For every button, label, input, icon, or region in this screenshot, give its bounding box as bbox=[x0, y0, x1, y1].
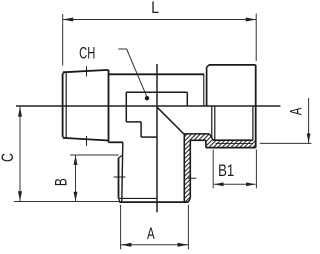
internal bore step vertical 1 bbox=[125, 92, 127, 122]
left male thread bottom corner chamfer bbox=[63, 137, 65, 138]
right block top edge bbox=[209, 64, 256, 66]
left male thread bottom crest bbox=[63, 138, 109, 141]
junction chamfer diagonal bbox=[157, 107, 184, 134]
socket bore line bbox=[213, 139, 253, 141]
svg-text:A: A bbox=[287, 107, 306, 115]
dimension A right line bbox=[308, 98, 310, 143]
internal bore step horizontal 1 bbox=[126, 121, 141, 123]
left thread end vertical bbox=[108, 70, 110, 142]
left thread tick bottom bbox=[86, 136, 88, 146]
svg-text:L: L bbox=[151, 0, 159, 18]
body top edge bbox=[109, 74, 205, 142]
body bottom edge left of branch bbox=[109, 141, 124, 143]
right block left edge bbox=[206, 67, 208, 106]
bottom branch left crest line bbox=[118, 158, 120, 198]
dimension A bottom extension lines bbox=[121, 205, 189, 250]
dimension A bottom line bbox=[121, 244, 189, 246]
socket thread root line bbox=[216, 143, 253, 145]
svg-text:C: C bbox=[0, 153, 18, 162]
bottom branch chamfer line bbox=[119, 197, 157, 199]
bottom branch thread tick bbox=[114, 176, 126, 178]
bottom branch corner chamfer bbox=[119, 198, 120, 202]
dimension C arrows bbox=[18, 107, 22, 202]
socket thread end vertical 1 bbox=[211, 106, 213, 138]
svg-text:B1: B1 bbox=[218, 162, 234, 181]
dimension A bottom arrows bbox=[121, 243, 188, 247]
right block left inner line bbox=[184, 65, 256, 148]
svg-text:A: A bbox=[147, 225, 155, 244]
left thread tick top bbox=[86, 66, 88, 76]
dimension B1 extension lines bbox=[213, 150, 256, 189]
dimension A right arrow bbox=[307, 134, 311, 144]
dimension B top extension line bbox=[70, 154, 119, 156]
dimension B arrows bbox=[74, 155, 78, 201]
right socket bottom face bbox=[206, 147, 256, 149]
section top edge at body wall bbox=[184, 133, 210, 135]
internal bore end wall bbox=[186, 92, 188, 105]
right socket boss left edge bbox=[205, 140, 207, 147]
bottom branch right wall bottom chamfer bbox=[188, 198, 190, 202]
svg-text:B: B bbox=[53, 178, 71, 186]
left male thread top corner chamfer bbox=[63, 72, 65, 73]
dimension B1 line bbox=[214, 183, 256, 185]
dimension B line bbox=[75, 155, 77, 201]
svg-text:CH: CH bbox=[79, 43, 95, 62]
leader CH dot bbox=[145, 96, 149, 100]
bottom branch thread runout diagonal bbox=[119, 155, 123, 158]
dimension L extension lines bbox=[63, 14, 257, 66]
right socket opening chamfer line bbox=[252, 106, 254, 140]
dimension L arrows bbox=[63, 18, 257, 22]
left male thread top crest bbox=[63, 70, 109, 72]
dimension C line bbox=[19, 106, 21, 201]
internal bore step horizontal 2 bbox=[141, 136, 157, 138]
body bottom wall outer edge bbox=[190, 139, 206, 141]
bottom branch right wall outer crest bbox=[189, 141, 191, 199]
dimension A right extension line bbox=[260, 142, 312, 144]
dimension L line bbox=[63, 19, 257, 21]
right block right edge bbox=[255, 65, 257, 148]
bottom extension line at part base bbox=[14, 201, 119, 203]
hatched section region bbox=[184, 134, 256, 202]
dimension B1 arrows bbox=[214, 182, 256, 186]
bottom branch right thread tick bbox=[188, 177, 196, 179]
left male thread chamfer line bbox=[65, 72, 67, 138]
socket bore transition diagonal bbox=[209, 134, 213, 140]
bottom branch right wall inner edge bbox=[157, 107, 196, 202]
internal bore top line bbox=[126, 92, 187, 137]
vertical centerline bbox=[156, 64, 158, 212]
horizontal centerline bbox=[16, 105, 281, 107]
internal bore step vertical 2 bbox=[140, 122, 142, 137]
right block top-left chamfer bbox=[207, 65, 209, 67]
left male thread end face bbox=[63, 66, 109, 145]
bottom branch end face bbox=[119, 201, 188, 203]
socket thread end vertical 2 bbox=[214, 106, 216, 140]
leader CH bbox=[118, 49, 147, 98]
bottom branch left root line bbox=[114, 142, 189, 202]
